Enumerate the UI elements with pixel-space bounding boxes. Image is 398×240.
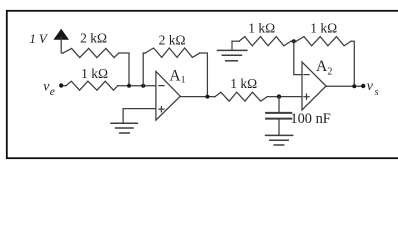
terminal vs <box>361 79 379 98</box>
wire <box>64 85 67 87</box>
svg-text:100 nF: 100 nF <box>290 111 330 127</box>
svg-text:v: v <box>367 79 374 94</box>
svg-text:A: A <box>169 67 181 84</box>
svg-text:e: e <box>50 86 55 98</box>
junction <box>141 84 145 88</box>
resistor R4 1 kΩ <box>215 76 267 101</box>
wire <box>61 52 63 54</box>
resistor R6 1 kΩ <box>296 21 351 46</box>
svg-text:1 kΩ: 1 kΩ <box>310 21 337 36</box>
ground <box>218 41 247 61</box>
wire <box>143 53 145 86</box>
terminal ve <box>43 80 63 99</box>
svg-text:2 kΩ: 2 kΩ <box>80 31 107 46</box>
svg-text:1 kΩ: 1 kΩ <box>81 66 108 81</box>
junction <box>292 39 296 43</box>
resistor R2 1 kΩ <box>66 66 118 90</box>
wire <box>200 53 208 97</box>
wire <box>232 40 239 42</box>
resistor R5 1 kΩ <box>239 21 291 46</box>
svg-text:1 kΩ: 1 kΩ <box>248 21 275 36</box>
wire <box>351 41 354 86</box>
wire <box>267 96 302 98</box>
junction <box>127 84 131 88</box>
svg-text:1 kΩ: 1 kΩ <box>230 76 257 91</box>
junction <box>277 94 281 98</box>
resistor R3 2 kΩ <box>145 33 200 58</box>
svg-text:A: A <box>316 58 328 75</box>
resistor R1 2 kΩ <box>63 31 119 58</box>
svg-text:1: 1 <box>181 75 186 85</box>
capacitor C1 100 nF <box>266 97 331 135</box>
svg-text:2 kΩ: 2 kΩ <box>159 33 186 48</box>
wire <box>294 41 302 74</box>
junction <box>352 84 356 88</box>
junction <box>205 95 209 99</box>
wire <box>119 53 129 86</box>
wire <box>118 85 156 87</box>
wire <box>291 40 296 42</box>
wire <box>180 96 215 98</box>
op-amp A1 <box>156 67 186 120</box>
ground <box>111 123 137 133</box>
svg-text:s: s <box>375 87 379 98</box>
wire <box>123 109 156 123</box>
op-amp A2 <box>302 58 332 110</box>
wire <box>326 85 363 87</box>
source V1 1 V <box>29 29 69 53</box>
ground <box>266 135 293 145</box>
svg-text:1: 1 <box>29 31 36 46</box>
svg-text:2: 2 <box>327 66 332 77</box>
